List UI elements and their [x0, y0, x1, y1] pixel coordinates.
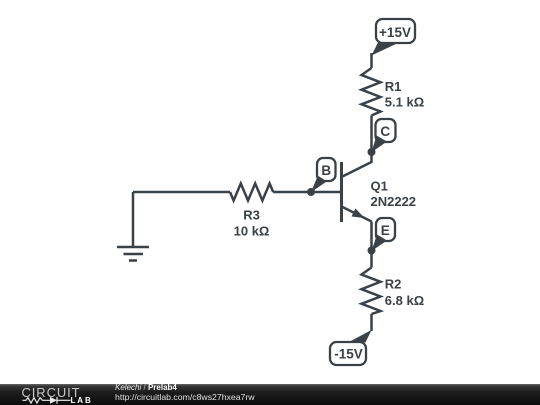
node E junction dot: [368, 247, 376, 255]
transistor Q1 emitter lead: [342, 207, 372, 222]
wire +15V to R1: [370, 53, 373, 68]
ground: [117, 247, 149, 261]
label R2 6.8 kΩ: [385, 276, 424, 308]
svg-text:E: E: [381, 223, 390, 238]
svg-text:6.8 kΩ: 6.8 kΩ: [385, 293, 424, 308]
svg-text:Q1: Q1: [371, 179, 388, 194]
wire R2 to -15V: [370, 314, 373, 331]
transistor Q1 collector lead: [342, 152, 372, 177]
power flag +15V: [372, 19, 416, 56]
wire emitter to node E: [370, 222, 373, 251]
label R1 5.1 kΩ: [385, 79, 424, 110]
label Q1 2N2222: [371, 179, 417, 210]
svg-text:C: C: [380, 124, 390, 139]
label R3 10 kΩ: [234, 208, 270, 239]
svg-text:+15V: +15V: [379, 25, 411, 40]
svg-text:R3: R3: [243, 208, 260, 223]
wire to ground: [132, 192, 135, 247]
node E label: [372, 218, 396, 251]
svg-text:R1: R1: [385, 79, 402, 94]
footer url text: [115, 393, 255, 402]
resistor R2: [362, 268, 381, 315]
power flag -15V: [330, 330, 372, 365]
svg-text:2N2222: 2N2222: [371, 194, 417, 209]
transistor Q1 emitter arrow: [352, 209, 365, 219]
wire R3 to transistor base: [273, 191, 341, 194]
svg-text:-15V: -15V: [334, 346, 363, 361]
footer title text: [115, 384, 177, 393]
node B label: [311, 158, 336, 192]
node B junction dot: [307, 188, 315, 196]
svg-text:R2: R2: [385, 276, 402, 291]
node C label: [372, 119, 396, 152]
CircuitLab logo: [0, 384, 110, 405]
wire node E to R2: [370, 251, 373, 268]
svg-text:LAB: LAB: [71, 396, 93, 405]
resistor R3: [230, 184, 273, 201]
resistor R1: [362, 68, 381, 116]
svg-text:10 kΩ: 10 kΩ: [234, 224, 270, 239]
node C junction dot: [368, 148, 376, 156]
wire R1 to node C: [370, 116, 373, 153]
transistor Q1 bar: [340, 162, 343, 222]
footer bar: [0, 384, 540, 405]
svg-text:5.1 kΩ: 5.1 kΩ: [385, 94, 424, 109]
wire base (ground to R3): [133, 191, 230, 194]
svg-text:B: B: [321, 163, 331, 178]
